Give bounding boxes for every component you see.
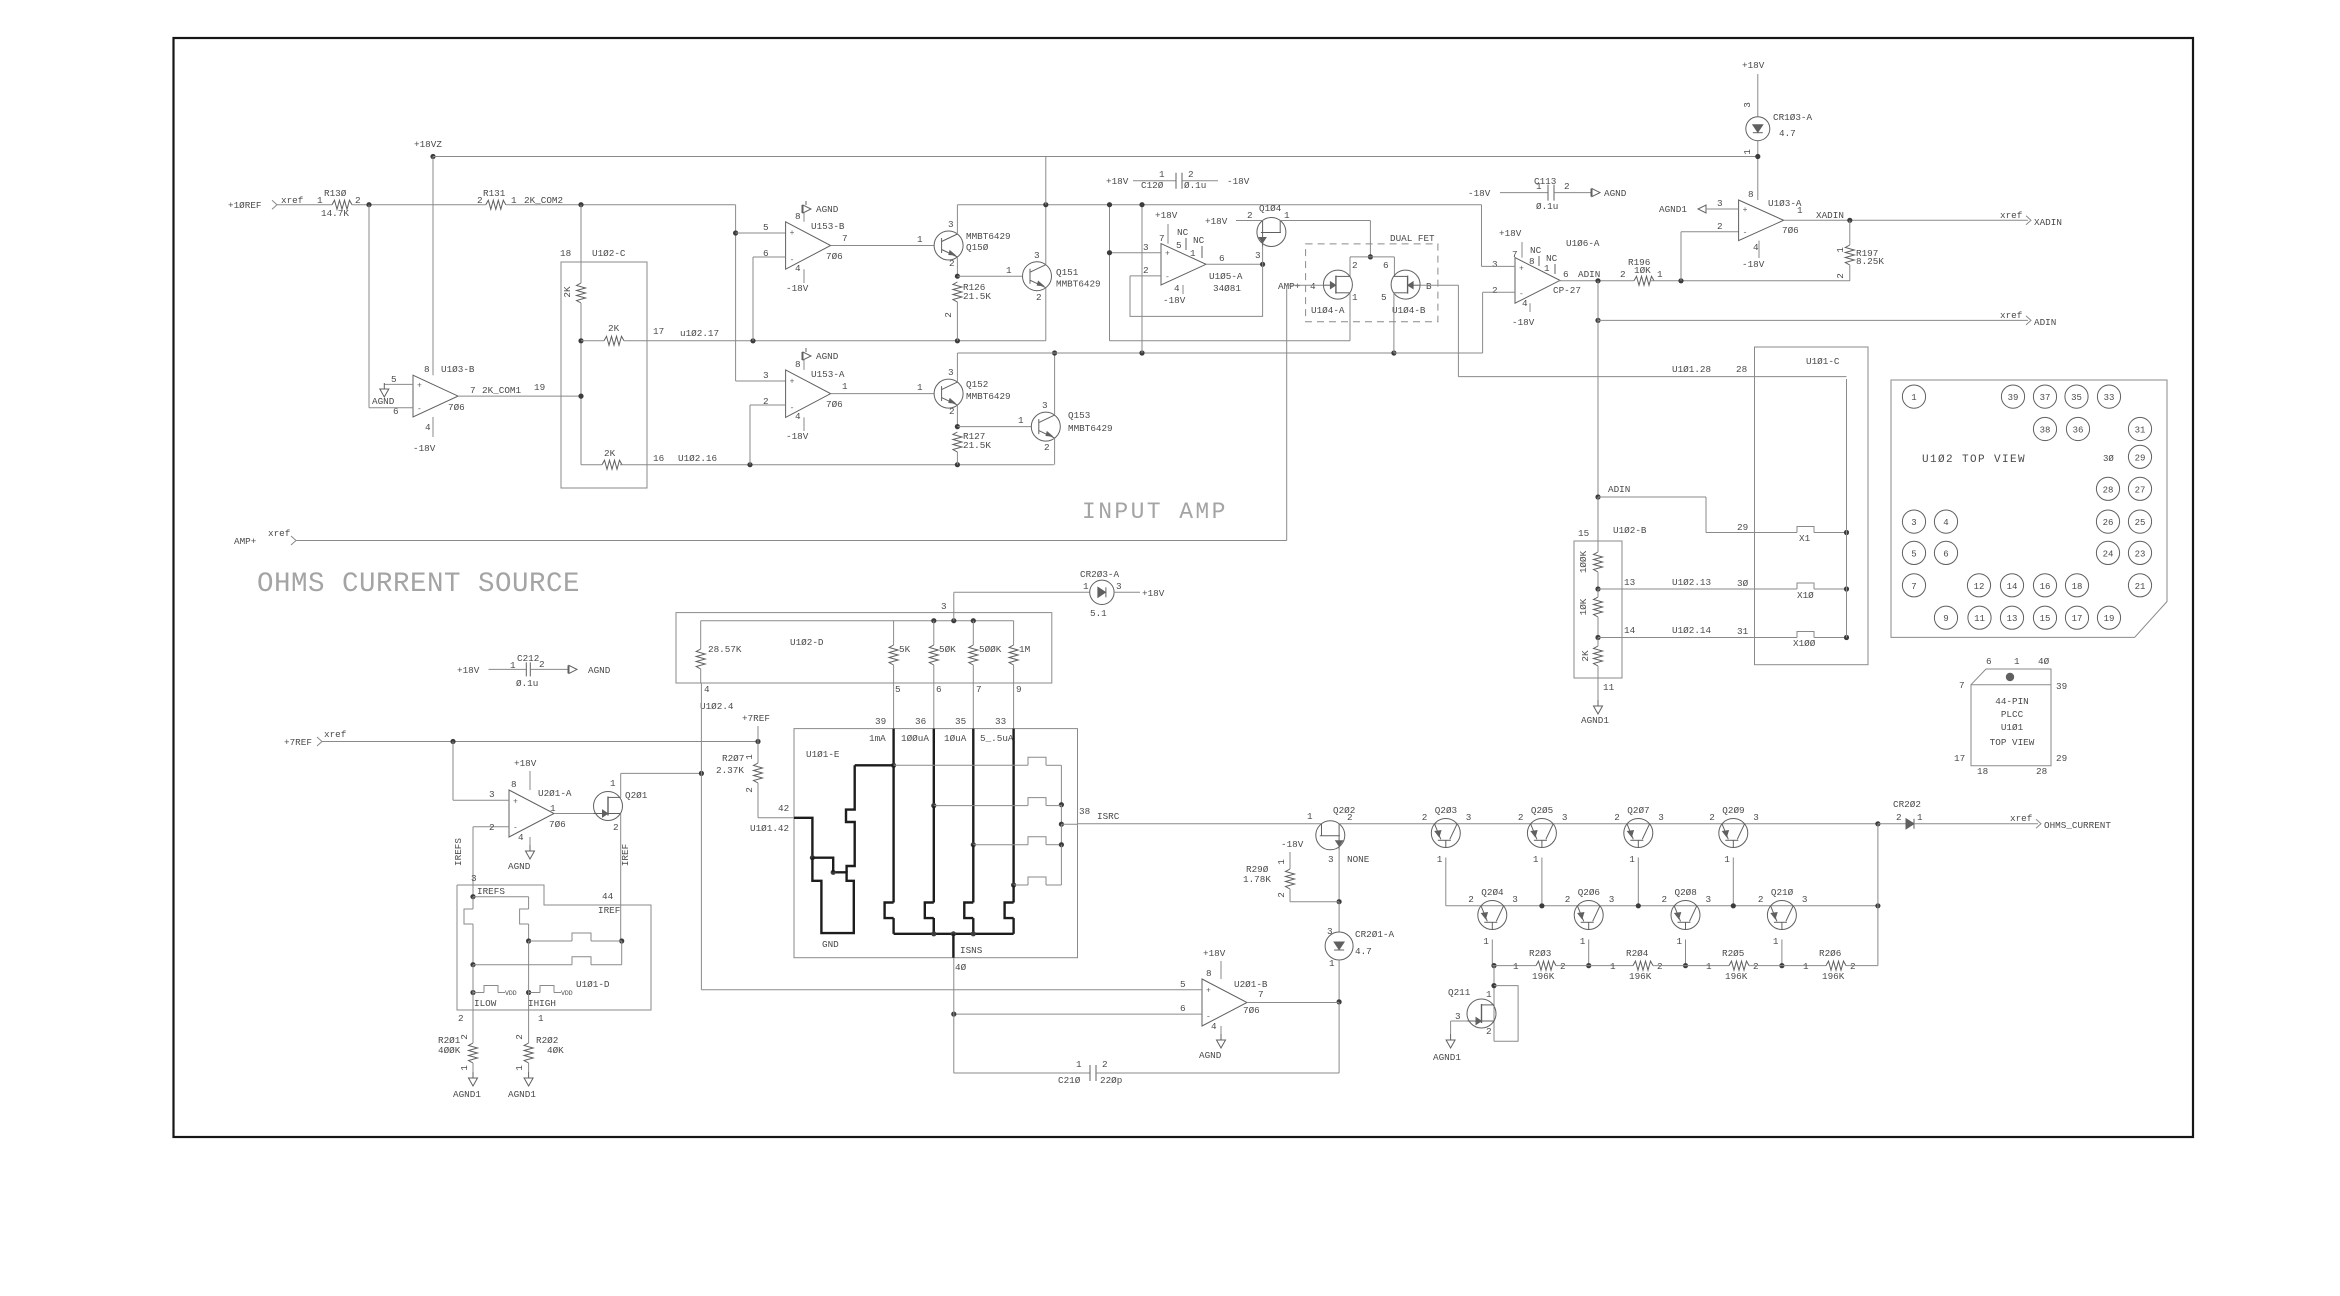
svg-text:3: 3	[489, 789, 495, 800]
svg-text:4Ø: 4Ø	[2038, 656, 2050, 667]
svg-text:3: 3	[1911, 518, 1916, 528]
svg-text:XADIN: XADIN	[2034, 217, 2062, 228]
svg-text:1: 1	[2014, 656, 2020, 667]
svg-text:AGND: AGND	[372, 396, 395, 407]
svg-text:Q153: Q153	[1068, 410, 1090, 421]
svg-text:1: 1	[1437, 854, 1443, 865]
svg-text:AGND1: AGND1	[453, 1089, 481, 1100]
svg-text:3Ø: 3Ø	[1737, 578, 1749, 589]
svg-text:3: 3	[471, 873, 477, 884]
svg-text:39: 39	[2008, 393, 2019, 403]
svg-text:1: 1	[1018, 415, 1024, 426]
svg-text:2: 2	[1565, 894, 1571, 905]
svg-text:3: 3	[1327, 926, 1333, 937]
svg-text:4ØØK: 4ØØK	[438, 1045, 461, 1056]
svg-text:4: 4	[1174, 283, 1180, 294]
svg-text:2: 2	[1468, 894, 1474, 905]
svg-text:1: 1	[1544, 263, 1550, 274]
svg-text:NC: NC	[1193, 235, 1205, 246]
svg-text:2: 2	[1486, 1026, 1492, 1037]
svg-text:xref: xref	[324, 729, 346, 740]
svg-text:2K: 2K	[562, 286, 573, 298]
svg-text:16: 16	[2040, 582, 2051, 592]
svg-text:-18V: -18V	[1281, 839, 1304, 850]
svg-text:DUAL FET: DUAL FET	[1390, 233, 1435, 244]
svg-text:4: 4	[1310, 281, 1316, 292]
svg-text:AMP+: AMP+	[234, 536, 257, 547]
svg-text:18: 18	[1977, 766, 1988, 777]
svg-text:1: 1	[1657, 269, 1663, 280]
svg-text:U2Ø1-A: U2Ø1-A	[538, 788, 572, 799]
svg-text:2: 2	[1247, 210, 1253, 221]
svg-text:+18V: +18V	[1142, 588, 1165, 599]
svg-text:NC: NC	[1530, 245, 1542, 256]
svg-text:2: 2	[1492, 285, 1498, 296]
svg-text:8: 8	[1529, 256, 1535, 267]
svg-text:28: 28	[2103, 485, 2114, 495]
svg-text:3: 3	[1042, 400, 1048, 411]
svg-text:33: 33	[2104, 393, 2115, 403]
svg-text:1: 1	[1276, 859, 1287, 865]
svg-text:196K: 196K	[1822, 971, 1845, 982]
svg-text:-18V: -18V	[1227, 176, 1250, 187]
svg-text:ISRC: ISRC	[1097, 811, 1120, 822]
svg-text:13: 13	[1624, 577, 1635, 588]
svg-text:14: 14	[1624, 625, 1636, 636]
svg-text:-: -	[1165, 273, 1170, 282]
svg-text:MMBT6429: MMBT6429	[1056, 279, 1101, 290]
svg-text:28: 28	[2036, 766, 2047, 777]
svg-text:U1Ø1-D: U1Ø1-D	[576, 979, 610, 990]
svg-text:ILOW: ILOW	[474, 998, 497, 1009]
svg-text:Ø.1u: Ø.1u	[1536, 201, 1558, 212]
svg-text:AGND1: AGND1	[1581, 715, 1609, 726]
svg-text:X1Ø: X1Ø	[1797, 590, 1814, 601]
svg-text:2: 2	[539, 659, 545, 670]
svg-text:5: 5	[1381, 292, 1387, 303]
svg-text:MMBT6429: MMBT6429	[966, 391, 1011, 402]
svg-text:CR2Ø3-A: CR2Ø3-A	[1080, 569, 1119, 580]
svg-text:42: 42	[778, 803, 789, 814]
svg-text:3: 3	[1802, 894, 1808, 905]
svg-text:2: 2	[1036, 292, 1042, 303]
svg-text:Q2Ø5: Q2Ø5	[1531, 805, 1553, 816]
svg-text:5: 5	[1176, 240, 1182, 251]
svg-text:1: 1	[1486, 989, 1492, 1000]
svg-text:1: 1	[842, 381, 848, 392]
svg-text:3: 3	[1562, 812, 1568, 823]
svg-text:7: 7	[1512, 249, 1518, 260]
svg-text:2: 2	[1143, 265, 1149, 276]
svg-text:1: 1	[1724, 854, 1730, 865]
svg-text:7: 7	[1258, 989, 1264, 1000]
svg-text:1: 1	[538, 1013, 544, 1024]
svg-text:Ø.1u: Ø.1u	[516, 678, 538, 689]
svg-text:4: 4	[1943, 518, 1948, 528]
svg-text:U1Ø2.16: U1Ø2.16	[678, 453, 717, 464]
svg-text:3: 3	[1034, 250, 1040, 261]
svg-text:9: 9	[1943, 614, 1948, 624]
svg-text:xref: xref	[2000, 310, 2022, 321]
svg-text:12: 12	[1974, 582, 1985, 592]
svg-text:21.5K: 21.5K	[963, 440, 991, 451]
svg-text:R13Ø: R13Ø	[324, 188, 347, 199]
svg-text:7: 7	[842, 233, 848, 244]
svg-text:CR1Ø3-A: CR1Ø3-A	[1773, 112, 1812, 123]
svg-text:1: 1	[317, 195, 323, 206]
svg-text:3: 3	[1328, 854, 1334, 865]
svg-text:B: B	[1426, 281, 1432, 292]
svg-text:CR2Ø2: CR2Ø2	[1893, 799, 1921, 810]
svg-text:CP-27: CP-27	[1553, 285, 1581, 296]
svg-text:4: 4	[704, 684, 710, 695]
svg-text:2: 2	[1188, 169, 1194, 180]
svg-text:MMBT6429: MMBT6429	[1068, 423, 1113, 434]
svg-text:3: 3	[1658, 812, 1664, 823]
svg-text:1: 1	[1773, 936, 1779, 947]
svg-text:4.7: 4.7	[1779, 128, 1796, 139]
svg-text:3: 3	[948, 367, 954, 378]
svg-text:1: 1	[1083, 581, 1089, 592]
svg-text:7Ø6: 7Ø6	[549, 819, 566, 830]
svg-text:196K: 196K	[1532, 971, 1555, 982]
svg-text:6: 6	[1563, 269, 1569, 280]
svg-text:19: 19	[534, 382, 545, 393]
svg-text:4: 4	[1753, 242, 1759, 253]
svg-text:7Ø6: 7Ø6	[826, 251, 843, 262]
svg-text:AGND1: AGND1	[508, 1089, 536, 1100]
svg-text:Q2Ø1: Q2Ø1	[625, 790, 648, 801]
svg-text:2: 2	[1753, 961, 1759, 972]
svg-text:5.1: 5.1	[1090, 608, 1107, 619]
svg-text:1: 1	[744, 754, 755, 760]
svg-text:11: 11	[1974, 614, 1985, 624]
svg-text:1: 1	[1533, 854, 1539, 865]
svg-text:21.5K: 21.5K	[963, 291, 991, 302]
svg-text:2: 2	[1657, 961, 1663, 972]
svg-text:Q2Ø3: Q2Ø3	[1435, 805, 1457, 816]
svg-text:IREF: IREF	[598, 905, 620, 916]
svg-text:1: 1	[1677, 936, 1683, 947]
svg-text:+18V: +18V	[1742, 60, 1765, 71]
svg-text:1: 1	[1483, 936, 1489, 947]
svg-text:24: 24	[2103, 549, 2114, 559]
svg-text:21: 21	[2135, 582, 2146, 592]
svg-text:2: 2	[744, 787, 755, 793]
svg-text:1: 1	[1917, 812, 1923, 823]
svg-text:R2Ø4: R2Ø4	[1626, 948, 1649, 959]
svg-text:U1Ø1.42: U1Ø1.42	[750, 823, 789, 834]
svg-text:7: 7	[976, 684, 982, 695]
svg-text:1ØØK: 1ØØK	[1578, 550, 1589, 573]
svg-text:+: +	[1519, 265, 1524, 274]
svg-text:5K: 5K	[899, 644, 911, 655]
svg-text:VDD: VDD	[505, 990, 517, 997]
svg-text:8: 8	[795, 211, 801, 222]
svg-text:X1ØØ: X1ØØ	[1793, 638, 1816, 649]
svg-text:34Ø81: 34Ø81	[1213, 283, 1241, 294]
svg-text:2: 2	[477, 195, 483, 206]
svg-text:1: 1	[1190, 248, 1196, 259]
svg-text:R131: R131	[483, 188, 506, 199]
svg-text:Q2Ø4: Q2Ø4	[1481, 887, 1504, 898]
svg-text:29: 29	[2135, 453, 2146, 463]
svg-text:1: 1	[610, 778, 616, 789]
svg-text:33: 33	[995, 716, 1006, 727]
svg-text:2: 2	[1347, 812, 1353, 823]
svg-text:+: +	[790, 229, 795, 238]
svg-text:CR2Ø1-A: CR2Ø1-A	[1355, 929, 1394, 940]
svg-text:16: 16	[653, 453, 664, 464]
svg-text:IREFS: IREFS	[477, 886, 505, 897]
svg-text:+18V: +18V	[457, 665, 480, 676]
svg-text:1: 1	[510, 660, 516, 671]
svg-text:1: 1	[1159, 169, 1165, 180]
svg-text:2: 2	[943, 312, 954, 318]
svg-text:2: 2	[1717, 221, 1723, 232]
svg-text:U1Ø2 TOP VIEW: U1Ø2 TOP VIEW	[1922, 454, 2026, 466]
svg-text:3: 3	[763, 370, 769, 381]
svg-text:+: +	[1165, 250, 1170, 259]
svg-text:2: 2	[1352, 260, 1358, 271]
svg-text:1: 1	[550, 803, 556, 814]
svg-text:31: 31	[2135, 426, 2146, 436]
svg-text:C12Ø: C12Ø	[1141, 180, 1164, 191]
svg-text:1: 1	[1610, 961, 1616, 972]
svg-text:4: 4	[425, 422, 431, 433]
svg-text:R2Ø5: R2Ø5	[1722, 948, 1744, 959]
svg-text:2: 2	[1850, 961, 1856, 972]
svg-text:2: 2	[489, 822, 495, 833]
svg-text:44: 44	[602, 891, 614, 902]
svg-text:22Øp: 22Øp	[1100, 1075, 1122, 1086]
svg-text:39: 39	[875, 716, 886, 727]
svg-text:7Ø6: 7Ø6	[1782, 225, 1799, 236]
svg-text:2K_COM1: 2K_COM1	[482, 385, 521, 396]
svg-text:U153-B: U153-B	[811, 221, 845, 232]
svg-text:3: 3	[1706, 894, 1712, 905]
svg-text:4: 4	[1522, 298, 1528, 309]
svg-text:7Ø6: 7Ø6	[826, 399, 843, 410]
svg-text:Q152: Q152	[966, 379, 988, 390]
svg-text:U1Ø4-B: U1Ø4-B	[1392, 305, 1426, 316]
svg-text:2: 2	[1422, 812, 1428, 823]
svg-text:4Ø: 4Ø	[955, 962, 967, 973]
svg-text:3: 3	[1742, 102, 1753, 108]
svg-text:4: 4	[1211, 1021, 1217, 1032]
svg-text:Q2Ø6: Q2Ø6	[1578, 887, 1600, 898]
svg-text:R2Ø6: R2Ø6	[1819, 948, 1841, 959]
svg-text:7Ø6: 7Ø6	[1243, 1005, 1260, 1016]
svg-text:ADIN: ADIN	[1578, 269, 1600, 280]
svg-text:17: 17	[2072, 614, 2083, 624]
svg-text:2: 2	[1758, 894, 1764, 905]
svg-text:Q2Ø8: Q2Ø8	[1675, 887, 1697, 898]
svg-text:3: 3	[1116, 581, 1122, 592]
svg-text:1ØuA: 1ØuA	[944, 733, 967, 744]
svg-text:5: 5	[391, 374, 397, 385]
svg-text:1: 1	[1742, 149, 1753, 155]
svg-text:36: 36	[2073, 426, 2084, 436]
svg-text:U1Ø1-C: U1Ø1-C	[1806, 356, 1840, 367]
svg-text:4ØK: 4ØK	[547, 1045, 564, 1056]
svg-text:14: 14	[2007, 582, 2018, 592]
svg-text:TOP VIEW: TOP VIEW	[1990, 737, 2035, 748]
svg-text:1: 1	[1580, 936, 1586, 947]
svg-text:+: +	[790, 377, 795, 386]
svg-text:1: 1	[1284, 210, 1290, 221]
svg-text:Q151: Q151	[1056, 267, 1079, 278]
svg-text:1.78K: 1.78K	[1243, 874, 1271, 885]
svg-text:7Ø6: 7Ø6	[448, 402, 465, 413]
svg-text:2: 2	[1564, 181, 1570, 192]
svg-text:R2Ø3: R2Ø3	[1529, 948, 1551, 959]
svg-text:C212: C212	[517, 653, 539, 664]
svg-text:29: 29	[1737, 522, 1748, 533]
svg-text:28.57K: 28.57K	[708, 644, 742, 655]
svg-text:1ØK: 1ØK	[1634, 265, 1651, 276]
svg-text:38: 38	[2040, 426, 2051, 436]
svg-text:U153-A: U153-A	[811, 369, 845, 380]
svg-text:PLCC: PLCC	[2001, 709, 2024, 720]
svg-text:2K: 2K	[608, 323, 620, 334]
svg-text:U1Ø2-D: U1Ø2-D	[790, 637, 824, 648]
svg-text:+: +	[1206, 986, 1211, 995]
svg-text:1: 1	[514, 1065, 525, 1071]
svg-text:+18V: +18V	[1203, 948, 1226, 959]
svg-text:1M: 1M	[1019, 644, 1030, 655]
svg-text:AGND: AGND	[508, 861, 531, 872]
svg-text:4.7: 4.7	[1355, 946, 1372, 957]
svg-text:38: 38	[1079, 806, 1090, 817]
svg-text:U1Ø3-B: U1Ø3-B	[441, 364, 475, 375]
svg-text:+18V: +18V	[1205, 216, 1228, 227]
svg-text:C21Ø: C21Ø	[1058, 1075, 1081, 1086]
svg-text:15: 15	[2040, 614, 2051, 624]
svg-text:2: 2	[1560, 961, 1566, 972]
svg-text:2K: 2K	[1580, 650, 1591, 662]
svg-text:-18V: -18V	[1163, 295, 1186, 306]
svg-text:25: 25	[2135, 518, 2146, 528]
svg-text:2: 2	[1614, 812, 1620, 823]
svg-text:GND: GND	[822, 939, 839, 950]
svg-text:-18V: -18V	[1468, 188, 1491, 199]
svg-text:8.25K: 8.25K	[1856, 256, 1884, 267]
svg-text:18: 18	[560, 248, 571, 259]
svg-text:+: +	[417, 381, 422, 390]
svg-text:1: 1	[1352, 292, 1358, 303]
svg-text:6: 6	[1219, 253, 1225, 264]
svg-text:-: -	[1743, 229, 1748, 238]
svg-text:35: 35	[955, 716, 966, 727]
svg-text:11: 11	[1603, 682, 1615, 693]
svg-text:INPUT AMP: INPUT AMP	[1082, 499, 1228, 525]
svg-text:Ø.1u: Ø.1u	[1184, 180, 1206, 191]
svg-text:ADIN: ADIN	[1608, 484, 1630, 495]
svg-text:2K: 2K	[604, 448, 616, 459]
svg-text:2: 2	[1896, 812, 1902, 823]
svg-text:3: 3	[948, 219, 954, 230]
svg-text:23: 23	[2135, 549, 2146, 559]
svg-text:-: -	[790, 256, 795, 265]
svg-text:8: 8	[424, 364, 430, 375]
svg-text:U1Ø5-A: U1Ø5-A	[1209, 271, 1243, 282]
svg-text:R2Ø7: R2Ø7	[722, 753, 744, 764]
svg-text:15: 15	[1578, 528, 1589, 539]
svg-text:4: 4	[795, 263, 801, 274]
svg-text:xref: xref	[2000, 210, 2022, 221]
svg-text:3: 3	[1143, 242, 1149, 253]
svg-text:6: 6	[1986, 656, 1992, 667]
svg-text:MMBT6429: MMBT6429	[966, 231, 1011, 242]
svg-text:+1ØREF: +1ØREF	[228, 200, 261, 211]
svg-text:5: 5	[895, 684, 901, 695]
svg-text:35: 35	[2071, 393, 2082, 403]
svg-text:8: 8	[1206, 968, 1212, 979]
svg-text:9: 9	[1016, 684, 1022, 695]
svg-text:2: 2	[1709, 812, 1715, 823]
svg-text:U1Ø1.28: U1Ø1.28	[1672, 364, 1711, 375]
svg-text:3: 3	[1717, 198, 1723, 209]
svg-text:+18VZ: +18VZ	[414, 139, 442, 150]
svg-text:1mA: 1mA	[869, 733, 886, 744]
svg-text:6: 6	[936, 684, 942, 695]
svg-text:NONE: NONE	[1347, 854, 1370, 865]
svg-text:AGND: AGND	[588, 665, 611, 676]
svg-text:4: 4	[518, 832, 524, 843]
svg-text:26: 26	[2103, 518, 2114, 528]
svg-text:8: 8	[511, 779, 517, 790]
svg-text:3: 3	[1466, 812, 1472, 823]
svg-text:1ØØuA: 1ØØuA	[901, 733, 929, 744]
svg-text:2: 2	[1620, 269, 1626, 280]
svg-text:IREFS: IREFS	[453, 838, 464, 866]
svg-text:3: 3	[1255, 250, 1261, 261]
svg-text:6: 6	[1383, 260, 1389, 271]
svg-text:AGND1: AGND1	[1659, 204, 1687, 215]
svg-text:17: 17	[1954, 753, 1965, 764]
svg-text:NC: NC	[1177, 227, 1189, 238]
svg-text:18: 18	[2072, 582, 2083, 592]
svg-text:+: +	[1743, 206, 1748, 215]
svg-text:1ØK: 1ØK	[1578, 598, 1589, 615]
svg-text:14.7K: 14.7K	[321, 208, 349, 219]
svg-text:Q211: Q211	[1448, 987, 1471, 998]
svg-text:-18V: -18V	[786, 431, 809, 442]
svg-text:1: 1	[1513, 961, 1519, 972]
svg-text:2.37K: 2.37K	[716, 765, 744, 776]
svg-text:+18V: +18V	[1155, 210, 1178, 221]
svg-text:5ØK: 5ØK	[939, 644, 956, 655]
svg-text:2: 2	[458, 1013, 464, 1024]
svg-text:+18V: +18V	[514, 758, 537, 769]
svg-text:AGND1: AGND1	[1433, 1052, 1461, 1063]
svg-text:-18V: -18V	[1742, 259, 1765, 270]
svg-text:5: 5	[1911, 549, 1916, 559]
svg-text:8: 8	[795, 359, 801, 370]
svg-text:Q2Ø7: Q2Ø7	[1627, 805, 1649, 816]
svg-text:1: 1	[459, 1065, 470, 1071]
svg-text:7: 7	[1159, 233, 1165, 244]
svg-text:2: 2	[613, 822, 619, 833]
svg-text:17: 17	[653, 326, 664, 337]
svg-text:AGND: AGND	[1199, 1050, 1222, 1061]
svg-text:2: 2	[949, 258, 955, 269]
svg-text:4: 4	[795, 411, 801, 422]
svg-text:-18V: -18V	[786, 283, 809, 294]
svg-text:1: 1	[1797, 205, 1803, 216]
svg-text:36: 36	[915, 716, 926, 727]
